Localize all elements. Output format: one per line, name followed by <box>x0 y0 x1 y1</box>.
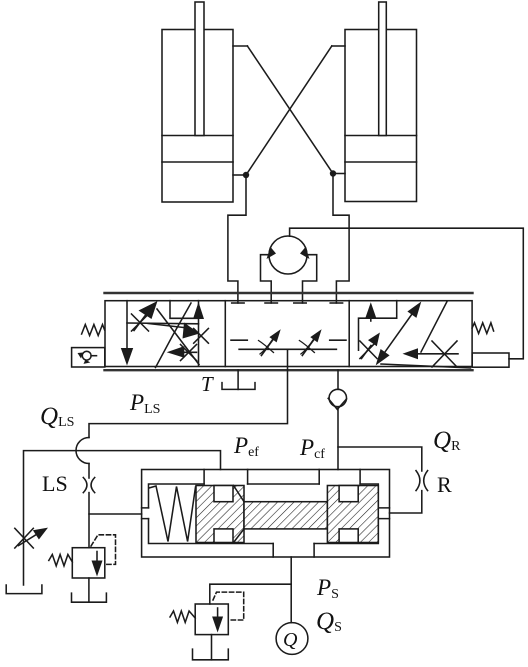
cylinder left body <box>162 30 233 203</box>
right box: variable orifice X lower-left <box>360 341 377 359</box>
wire relief system branch <box>210 584 291 604</box>
variable restrictor arrow <box>19 528 49 546</box>
cylinder left piston line top <box>162 135 233 137</box>
left box: orifice X on left arrow <box>181 345 197 361</box>
relief valve system body <box>195 604 228 635</box>
left box: left-pointing arrow <box>167 346 197 358</box>
steering unit left frame <box>261 255 272 303</box>
wire Q_R branch <box>338 447 422 471</box>
priority valve spring <box>149 486 196 542</box>
cylinder left piston line bottom <box>162 161 233 163</box>
left box: long diagonal up-right <box>156 303 192 368</box>
priority valve right port channel <box>378 508 389 519</box>
right box: bypass notch <box>359 301 397 351</box>
wire right cylinder bottom port stub <box>333 173 345 175</box>
left box: down arrow <box>121 301 133 366</box>
tank T under valve <box>222 370 255 389</box>
relief valve LS pilot dashed <box>91 535 116 565</box>
middle box: port stub crossbar 4 <box>330 302 342 304</box>
svg-text:LS: LS <box>42 471 68 496</box>
priority valve spool right land <box>327 486 378 543</box>
priority valve outer body <box>142 470 390 558</box>
wire left cylinder down to valve port A <box>228 175 246 303</box>
wire P_cf check valve to priority valve <box>337 407 339 470</box>
left box: right-pointing arrow <box>148 323 200 339</box>
pilot box right (feedback pilot) <box>472 353 509 367</box>
relief valve LS tank <box>72 578 107 602</box>
relief valve LS spring <box>49 555 73 566</box>
left box: horizontal branch line <box>127 322 199 325</box>
wire steering unit top to feedback <box>290 228 524 359</box>
priority valve left port channel <box>142 508 149 519</box>
right box: shallow bottom diagonal <box>381 364 471 368</box>
variable restrictor X <box>15 528 34 548</box>
pump circle <box>276 623 308 655</box>
wire LS orifice to junction <box>88 493 90 548</box>
middle box: port stub crossbar 3 <box>294 302 306 304</box>
directional valve position boxes frame <box>105 301 472 367</box>
directional valve envelope top line <box>105 292 473 294</box>
priority valve spool stem <box>244 502 327 529</box>
wire right cylinder top port stub <box>332 45 345 47</box>
svg-text:R: R <box>437 472 452 497</box>
wire right cylinder down to valve port B <box>333 174 349 304</box>
steering metering unit circle <box>269 236 307 274</box>
wire R orifice to priority valve <box>390 491 422 513</box>
priority valve top port P_ef walls <box>203 470 205 485</box>
left box: up arrow <box>193 302 204 366</box>
steering unit rotation arrowhead right <box>300 247 310 259</box>
wire P_S pump line <box>290 557 292 623</box>
node junction dot left <box>243 172 249 178</box>
priority valve spool left land <box>196 486 244 543</box>
middle box: gallery line <box>239 348 336 350</box>
right box: diagonal from top right <box>421 302 447 353</box>
wire cross diagonal right-top to left-bottom <box>246 46 332 175</box>
middle box: metering arrow left <box>259 329 281 355</box>
right box: orifice X on left arrow <box>432 341 457 367</box>
cylinder right piston line top <box>345 135 417 137</box>
cylinder right piston line bottom <box>345 161 417 163</box>
priority valve top port P_cf walls <box>318 470 320 485</box>
relief valve system tank <box>193 635 229 660</box>
wire load line P_ef horizontal <box>24 451 221 585</box>
wire crossing hop <box>76 438 89 464</box>
wire LS to priority valve <box>89 513 142 515</box>
check valve ball <box>329 389 346 406</box>
check valve line from valve <box>337 370 339 389</box>
middle box: bottom stub T crossbar right <box>330 339 346 341</box>
middle box: bottom stub T crossbar left <box>231 339 247 341</box>
spring left of valve <box>82 325 105 336</box>
left box: orifice X on right arrow <box>194 329 209 344</box>
right box: double-headed diagonal <box>376 302 422 366</box>
check valve seat <box>328 398 346 409</box>
cylinder right rod <box>379 2 387 136</box>
wire left cylinder top port stub <box>233 45 247 47</box>
orifice LS <box>83 478 94 493</box>
steering unit right frame <box>303 255 317 303</box>
priority valve bottom port walls <box>272 544 274 558</box>
middle box: metering arrow right <box>299 329 321 355</box>
left box: bypass notch rectangle <box>170 301 199 319</box>
right box: left-pointing arrow <box>403 348 459 359</box>
cylinder right body <box>345 30 417 202</box>
directional valve envelope bottom line <box>105 369 473 371</box>
right box: up arrow <box>365 302 377 321</box>
pilot box left (steering wheel pilot) <box>72 348 105 367</box>
steering unit rotation arrowhead left <box>267 247 277 259</box>
orifice R <box>416 471 428 491</box>
middle box: port stub crossbar 1 <box>232 302 244 304</box>
node junction dot right <box>330 170 336 176</box>
wire P_LS from valve bottom <box>89 349 288 437</box>
middle box: port stub crossbar 2 <box>265 302 277 304</box>
left box: long diagonal down-right <box>157 309 199 365</box>
svg-text:T: T <box>201 372 214 396</box>
directional valve box divider right <box>348 301 350 367</box>
directional valve box divider left <box>224 301 226 367</box>
right box: up-right arrow through orifice <box>362 333 380 359</box>
wire LS down to orifice <box>88 464 90 479</box>
svg-text:Q: Q <box>283 629 298 651</box>
wire left cylinder bottom port stub <box>233 174 246 176</box>
left box: variable orifice X <box>132 314 149 331</box>
cylinder left rod <box>195 2 204 136</box>
wire cross diagonal left-top to right-bottom <box>247 46 333 174</box>
relief valve system spring <box>170 611 195 622</box>
left box: up-right arrow through orifice <box>134 301 158 331</box>
tank left bottom <box>6 585 42 594</box>
relief valve system pilot dashed <box>213 592 244 620</box>
relief valve LS body <box>72 548 105 578</box>
spring right of valve <box>472 323 494 334</box>
priority valve inner bore <box>149 484 379 544</box>
